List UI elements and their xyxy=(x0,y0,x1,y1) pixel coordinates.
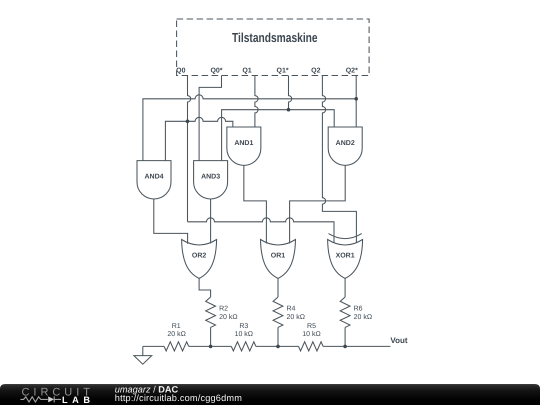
wire AND2 output to OR1.in2 with hop over Q2 xyxy=(290,165,346,243)
resistor R1 zigzag xyxy=(164,342,189,351)
svg-text:XOR1: XOR1 xyxy=(336,252,355,259)
resistor R6 zigzag xyxy=(340,297,350,327)
wire AND4 output to OR2.in1 xyxy=(154,199,188,244)
svg-text:10 kΩ: 10 kΩ xyxy=(235,330,253,338)
wire R2 lower lead xyxy=(210,327,212,346)
svg-text:Q0*: Q0* xyxy=(210,68,222,75)
svg-text:R1: R1 xyxy=(172,323,181,330)
ground symbol xyxy=(134,356,152,365)
svg-text:R3: R3 xyxy=(239,323,248,330)
svg-text:20 kΩ: 20 kΩ xyxy=(167,330,185,338)
wire net Q0 lower run to XOR1.in1 with hops xyxy=(188,218,335,243)
resistor R5 zigzag xyxy=(299,342,324,351)
wire Q0* pin jog to AND3.in1 xyxy=(199,76,221,161)
svg-text:AND3: AND3 xyxy=(201,174,220,181)
svg-text:OR1: OR1 xyxy=(271,252,286,259)
wire XOR1 output upper lead xyxy=(344,278,346,297)
OR gate OR1 xyxy=(261,240,296,279)
svg-text:AND1: AND1 xyxy=(234,140,253,147)
wire R6 lower lead xyxy=(344,327,346,346)
junction node Q1* line xyxy=(287,108,291,112)
svg-text:LAB: LAB xyxy=(62,395,90,405)
svg-text:http://circuitlab.com/cgg6dmm: http://circuitlab.com/cgg6dmm xyxy=(115,393,242,403)
svg-text:Vout: Vout xyxy=(390,336,408,345)
wire bottom rail xyxy=(143,345,391,347)
svg-text:20 kΩ: 20 kΩ xyxy=(219,313,237,321)
state machine box Tilstandsmaskine xyxy=(177,19,370,76)
svg-text:20 kΩ: 20 kΩ xyxy=(287,313,305,321)
resistor R4 zigzag xyxy=(273,297,283,327)
wire R4 lower lead xyxy=(277,327,279,346)
svg-text:10 kΩ: 10 kΩ xyxy=(302,330,320,338)
XOR gate XOR1 body xyxy=(328,240,363,279)
CircuitLab logo resistor+diode glyph xyxy=(20,396,61,402)
wire Q0 pin vertical with hop over H1 xyxy=(188,76,191,222)
svg-text:Q0: Q0 xyxy=(176,68,185,75)
wire Q1* pin vertical with hop over H1 xyxy=(289,76,292,110)
svg-text:20 kΩ: 20 kΩ xyxy=(354,313,372,321)
junction node Q2* line xyxy=(354,97,358,101)
wire AND3 output to OR2.in2 xyxy=(210,199,212,244)
svg-text:AND4: AND4 xyxy=(144,174,163,181)
svg-text:Q1: Q1 xyxy=(242,68,251,75)
svg-text:Q1*: Q1* xyxy=(277,68,289,75)
wire net Q0 horizontal AND4.in2 to AND1.in1 with hops xyxy=(165,117,232,160)
svg-text:AND2: AND2 xyxy=(336,140,355,147)
svg-text:R6: R6 xyxy=(354,306,363,313)
junction node rail R2 xyxy=(209,345,213,349)
svg-text:R5: R5 xyxy=(307,323,316,330)
svg-text:R2: R2 xyxy=(219,306,228,313)
wire OR2 output jog to R2 xyxy=(199,278,211,297)
AND gate AND4 xyxy=(137,161,171,199)
AND gate AND3 xyxy=(194,161,228,199)
wire net Q1* horizontal AND3.in2 to AND2.in1 xyxy=(222,110,335,161)
wire Q2* pin vertical to AND2.in2 xyxy=(355,76,357,128)
wire AND1 output to OR1.in1 xyxy=(244,165,267,243)
AND gate AND1 xyxy=(227,127,261,165)
OR gate OR2 xyxy=(182,240,217,279)
svg-text:Tilstandsmaskine: Tilstandsmaskine xyxy=(232,30,318,45)
wire Q2 pin vertical with hops, jog to XOR1.in2 xyxy=(322,76,356,243)
junction node rail R4 xyxy=(276,345,280,349)
junction node Q0/AND line xyxy=(186,120,190,124)
svg-text:OR2: OR2 xyxy=(192,252,207,259)
svg-text:R4: R4 xyxy=(287,306,296,313)
wire ground stem xyxy=(142,346,144,355)
wire net Q2* horizontal to AND4.in1 with hop over Q0* xyxy=(143,95,356,161)
resistor R3 zigzag xyxy=(231,342,256,351)
wire OR1 output upper lead xyxy=(277,278,279,297)
junction node rail R6 xyxy=(343,345,347,349)
svg-text:Q2: Q2 xyxy=(311,68,320,75)
resistor R2 zigzag xyxy=(206,297,216,327)
footer bar xyxy=(0,384,540,405)
wire Q1 pin vertical with hops over H1 H2 xyxy=(255,76,258,128)
svg-text:Q2*: Q2* xyxy=(346,68,358,75)
XOR gate XOR1 upper arc xyxy=(329,234,362,239)
AND gate AND2 xyxy=(328,127,362,165)
